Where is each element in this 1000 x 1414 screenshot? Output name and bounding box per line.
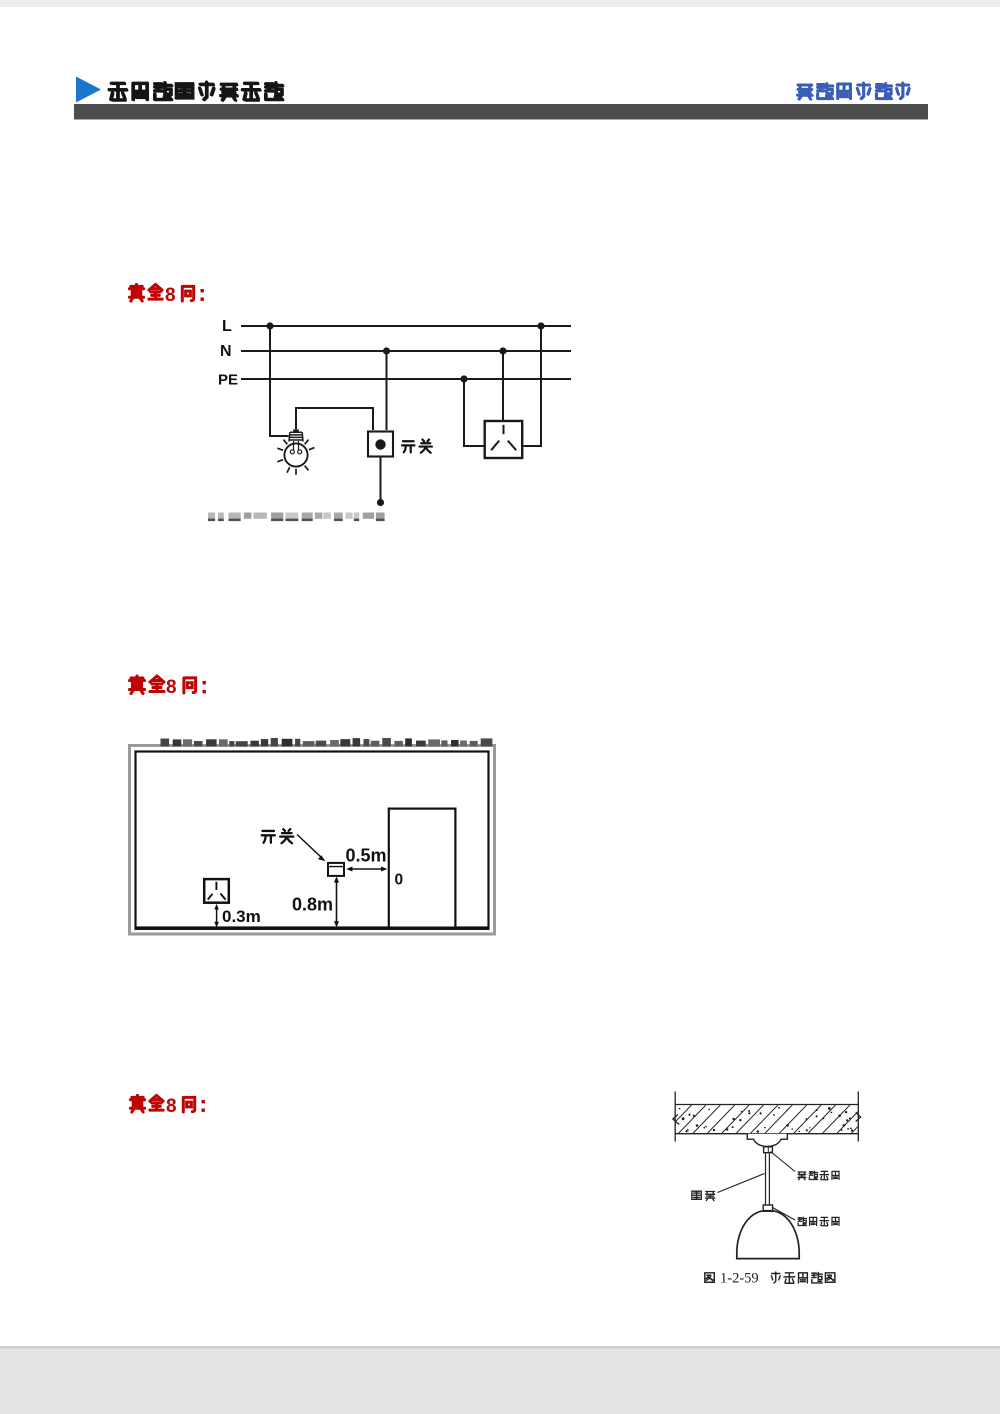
door — [389, 809, 456, 928]
svg-text:1-2-59: 1-2-59 — [720, 1271, 759, 1287]
logo play triangle — [76, 77, 101, 103]
node PE-socket junction — [460, 375, 467, 382]
svg-text:0.5m: 0.5m — [346, 846, 387, 866]
label gang-guan (CJK) — [692, 1191, 715, 1200]
lamp shade bell — [737, 1211, 799, 1259]
header rule bar — [74, 104, 928, 120]
svg-text:L: L — [222, 318, 232, 335]
wire N to switch top — [386, 352, 388, 430]
node switch bottom terminal — [377, 499, 384, 506]
wire L bus — [241, 325, 571, 327]
socket X1 box — [485, 421, 523, 458]
wire L to lamp — [270, 326, 289, 436]
wall socket box — [204, 879, 229, 903]
canopy dome — [747, 1134, 787, 1147]
dimension 0.8m arrow — [334, 876, 339, 927]
wire switch bottom stub — [380, 458, 382, 501]
wire PE to socket left — [464, 380, 484, 446]
ceiling slab outline — [674, 1092, 676, 1142]
figure 1 caption (clipped text tops) — [208, 513, 385, 522]
svg-text:8: 8 — [166, 677, 177, 698]
red heading 3 (CJK) — [130, 1095, 205, 1117]
leader arrow from label to switch — [297, 835, 322, 859]
red heading 1 (CJK) — [129, 284, 204, 306]
header right slogan blue text (CJK) — [797, 83, 909, 100]
room floor line — [135, 927, 490, 930]
label kai-guan (switch) — [262, 829, 294, 843]
switch S1 box — [368, 432, 393, 457]
figure 2 room wall rectangle — [136, 752, 489, 928]
node L-socket junction — [537, 322, 544, 329]
svg-text:PE: PE — [218, 372, 238, 389]
wire PE bus — [241, 378, 571, 380]
leader line to steel pipe label — [718, 1174, 765, 1193]
svg-text:0.8m: 0.8m — [292, 895, 333, 915]
wall socket prongs — [208, 882, 226, 900]
switch S1 button dot — [375, 439, 385, 449]
page top gray strip — [0, 0, 1000, 7]
node N-socket junction — [499, 347, 506, 354]
dimension 0.3m arrow — [214, 904, 219, 928]
node N-switch junction — [383, 347, 390, 354]
page bottom gray band — [0, 1346, 1000, 1414]
svg-text:0: 0 — [395, 872, 404, 889]
lamp screw cap — [289, 429, 303, 441]
svg-text:N: N — [220, 343, 232, 360]
label kai-guan for switch — [402, 440, 432, 453]
leader line to hook pin label — [771, 1152, 796, 1172]
label gua-xiao-lian-jie (CJK) — [798, 1171, 839, 1180]
socket X1 prongs — [491, 425, 516, 450]
wire lamp to switch top — [296, 408, 373, 430]
logo company name text (CJK) — [109, 82, 283, 100]
figure 3 background box — [662, 1087, 874, 1289]
figure 2 outer gray frame — [128, 744, 496, 936]
hook pin square connector — [764, 1147, 773, 1153]
lamp EL bulb — [284, 441, 307, 467]
slab break mark left — [673, 1115, 678, 1124]
dimension 0.5m arrow — [346, 867, 387, 872]
slab break mark right — [856, 1113, 861, 1122]
label luo-wen-lian-jie (CJK) — [798, 1217, 839, 1226]
threaded connector square — [763, 1205, 772, 1211]
steel pipe — [765, 1154, 767, 1206]
wire N to socket top — [502, 352, 504, 420]
svg-text:8: 8 — [166, 1096, 177, 1117]
svg-text:0.3m: 0.3m — [222, 907, 261, 926]
wire L to socket right — [524, 327, 542, 446]
svg-text:8: 8 — [165, 285, 176, 306]
figure 1 background box — [203, 302, 582, 521]
clipped text line above figure 2 — [161, 738, 493, 746]
wire N bus — [241, 350, 571, 352]
red heading 2 (CJK) — [130, 676, 206, 698]
concrete aggregate dots — [678, 1107, 853, 1133]
node L-lamp junction — [266, 322, 273, 329]
switch box on wall — [328, 863, 344, 876]
lamp glow rays — [277, 440, 314, 475]
figure 3 caption — [705, 1271, 835, 1287]
leader line to threaded label — [773, 1208, 796, 1221]
